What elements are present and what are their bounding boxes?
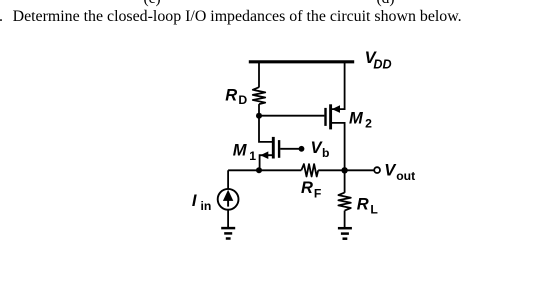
junction node A dot (256, 113, 262, 119)
transistor M1 channel bar (272, 137, 275, 159)
svg-text:R: R (357, 196, 369, 214)
wire M1 gate to Vb (280, 148, 301, 150)
wire node C down to RL (344, 170, 346, 193)
terminal Vout open circle (374, 167, 380, 173)
wire RL to ground (344, 211, 346, 227)
svg-text:1: 1 (249, 149, 256, 163)
svg-text:R: R (301, 179, 313, 197)
junction node B dot (256, 167, 262, 173)
svg-text:M: M (349, 109, 364, 127)
wire node B down to Iin source (227, 170, 229, 189)
label M2 (349, 109, 372, 130)
resistor RF (301, 164, 318, 176)
label VDD (365, 49, 392, 71)
resistor RD (253, 87, 265, 104)
wire M1 source to node B (260, 155, 272, 170)
label RL (357, 196, 379, 217)
wire RD bottom to node A (258, 104, 260, 116)
problem number period (0, 8, 3, 26)
label M1 (233, 142, 256, 164)
current source Iin arrow (223, 190, 233, 201)
ground symbol below RL (338, 228, 352, 239)
transistor M1 gate bar (278, 140, 280, 158)
wire Iin source to ground (227, 210, 229, 228)
wire M2 drain down to node C (332, 123, 345, 170)
VDD power rail (249, 60, 354, 63)
wire Iin to node B (228, 169, 259, 171)
svg-text:L: L (370, 203, 378, 217)
wire node A down to M1 drain (259, 116, 272, 142)
svg-text:R: R (225, 87, 237, 105)
transistor M2 source arrow (332, 105, 340, 113)
svg-text:2: 2 (365, 117, 372, 131)
wire node B to RF (259, 169, 301, 171)
wire RF to node C (318, 169, 344, 171)
transistor M1 source arrow (260, 151, 268, 159)
junction node C dot (341, 167, 347, 173)
svg-text:b: b (322, 146, 329, 160)
label RF (301, 179, 321, 200)
svg-text:DD: DD (373, 58, 391, 72)
ground symbol below Iin (221, 228, 235, 238)
current source Iin arrow shaft (227, 200, 229, 207)
transistor M2 channel bar (329, 104, 332, 129)
wire node A to M2 gate (259, 115, 324, 117)
svg-text:I: I (192, 192, 197, 210)
node Vb bullet (299, 146, 305, 152)
partial caption (c) of figure above (144, 0, 161, 8)
partial caption (d) of figure above (377, 0, 395, 8)
svg-text:M: M (233, 142, 248, 160)
svg-text:F: F (314, 186, 321, 200)
resistor RL (338, 193, 350, 211)
label Vout (384, 161, 415, 183)
label RD (225, 87, 247, 107)
label Iin (192, 192, 211, 213)
svg-text:D: D (238, 93, 247, 107)
svg-text:in: in (201, 199, 212, 213)
wire node C to Vout terminal (345, 169, 375, 171)
label Vb (311, 139, 330, 160)
current source Iin circle (218, 189, 239, 210)
wire VDD rail to RD top (258, 62, 260, 88)
transistor M2 gate bar (324, 108, 326, 126)
svg-text:out: out (396, 169, 415, 183)
problem statement text (13, 8, 462, 26)
wire VDD rail down to M2 source (332, 62, 345, 109)
